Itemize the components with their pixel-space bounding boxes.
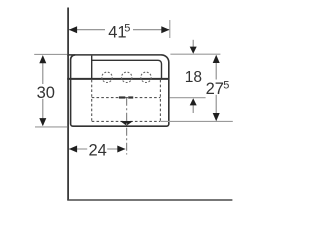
svg-text:18: 18	[185, 69, 202, 86]
svg-text:24: 24	[89, 142, 107, 160]
svg-text:5: 5	[223, 80, 229, 92]
svg-text:5: 5	[124, 22, 130, 34]
svg-text:27: 27	[206, 80, 224, 98]
svg-text:30: 30	[37, 84, 55, 102]
